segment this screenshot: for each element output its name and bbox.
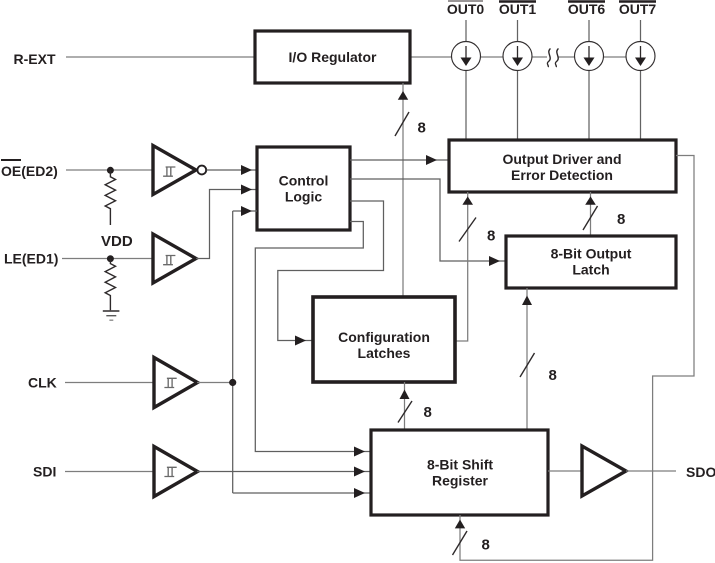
arrow into I/O Regulator bottom	[398, 91, 408, 100]
arrow into Control Logic input 2	[241, 185, 252, 195]
arrow into Shift Register input 2	[354, 467, 365, 477]
Control Logic box	[257, 147, 350, 230]
Output Driver and Error Detection box	[449, 140, 676, 192]
current source OUT1	[503, 42, 532, 71]
arrow into Shift Register input 3	[354, 488, 365, 498]
node CLK junction dot	[229, 379, 236, 386]
svg-text:8-Bit Output: 8-Bit Output	[551, 246, 632, 262]
wire LE buffer to Control Logic input 2	[196, 190, 257, 259]
wire CLK to Control Logic input 3	[233, 210, 257, 212]
OE(ED2) port label with overline	[1, 160, 58, 179]
wire CLK to Shift Register input 3	[233, 492, 371, 494]
node LE junction dot	[107, 255, 114, 262]
ground symbol	[103, 311, 120, 320]
svg-text:CLK: CLK	[28, 375, 57, 391]
wire SDI buffer to Shift Register input 2	[197, 471, 371, 473]
wire CLK buffer to junction	[197, 382, 233, 384]
break squiggle between OUT1 and OUT6	[547, 49, 558, 68]
svg-text:Control: Control	[279, 173, 329, 189]
svg-text:8: 8	[617, 211, 625, 228]
arrow into Output Driver bottom left	[462, 196, 473, 204]
resistor OE pull-up to VDD	[105, 170, 115, 225]
bus slash (ShiftReg to Config)	[398, 401, 412, 423]
Configuration Latches box	[313, 297, 455, 382]
svg-text:Configuration: Configuration	[338, 329, 430, 345]
resistor LE pull-down to ground	[105, 259, 115, 311]
wire OUT7 stem	[640, 20, 642, 140]
svg-text:8: 8	[549, 367, 557, 384]
8-Bit Output Latch box	[506, 236, 676, 288]
wire Shift Register to SDO buffer	[548, 470, 582, 472]
wire CLK net vertical	[232, 211, 234, 493]
wire error status feedback from Output Driver to Shift Register	[460, 156, 694, 561]
svg-text:OE(ED2): OE(ED2)	[1, 163, 58, 179]
net OUT1 label	[499, 1, 537, 17]
wire OUT1 stem	[517, 20, 519, 140]
wire OUT0 stem	[465, 20, 467, 140]
bus Shift Register to 8-Bit Output Latch	[526, 288, 528, 430]
svg-text:OUT1: OUT1	[499, 1, 537, 17]
svg-text:8-Bit Shift: 8-Bit Shift	[427, 457, 493, 473]
bus I/O Regulator to Configuration Latches vertical	[402, 83, 404, 297]
bus slash near I/O Regulator	[395, 112, 409, 136]
svg-text:SDI: SDI	[33, 464, 56, 480]
arrow into 8-Bit Output Latch bottom	[522, 296, 532, 306]
arrow into Configuration Latches left	[295, 336, 306, 346]
arrow into Shift Register bottom	[455, 520, 465, 529]
arrow into Shift Register input 1	[354, 447, 365, 457]
arrow into Configuration Latches bottom	[400, 390, 410, 400]
node OE junction dot	[107, 167, 114, 174]
current source OUT6	[575, 42, 604, 71]
net OUT7 label	[619, 1, 657, 17]
wire between current sources after break	[559, 56, 641, 58]
8-Bit Shift Register box	[371, 430, 548, 515]
bus Configuration Latches to Output Driver	[455, 192, 468, 341]
arrow into Control Logic input 3	[241, 206, 252, 216]
svg-text:I/O Regulator: I/O Regulator	[289, 49, 377, 65]
current source OUT7	[626, 42, 655, 71]
wire Control Logic output 1 to Output Driver	[350, 159, 449, 161]
arrow into Output Driver left	[426, 155, 437, 165]
svg-text:LE(ED1): LE(ED1)	[4, 251, 58, 267]
schmitt buffer CLK	[154, 358, 198, 408]
wire LE(ED1) to buffer	[62, 258, 152, 260]
schmitt buffer OE	[153, 146, 196, 195]
wire CLK to buffer	[65, 382, 154, 384]
svg-text:8: 8	[487, 228, 495, 245]
wire SDI to buffer	[65, 471, 154, 473]
wire OE(ED2) to buffer	[66, 169, 152, 171]
wire Control Logic output 4 to 8-Bit Shift Register	[255, 222, 371, 452]
I/O Regulator box	[255, 31, 410, 83]
net OUT6 label	[568, 1, 606, 17]
arrow into Control Logic input 1	[241, 165, 252, 175]
svg-text:8: 8	[424, 404, 432, 421]
buffer SDO output	[582, 446, 626, 496]
schmitt buffer SDI	[154, 447, 198, 497]
svg-text:OUT6: OUT6	[568, 1, 606, 17]
wire Control Logic output 2 to 8-Bit Output Latch	[350, 179, 506, 261]
svg-text:Latches: Latches	[358, 345, 411, 361]
svg-text:OUT0: OUT0	[447, 1, 485, 17]
svg-text:Output Driver and: Output Driver and	[502, 151, 621, 167]
wire I/O Regulator to current sources	[410, 56, 547, 58]
svg-text:8: 8	[482, 537, 490, 554]
arrow into 8-Bit Output Latch left	[489, 256, 500, 266]
wire OE buffer to Control Logic	[207, 169, 258, 171]
current source OUT0	[452, 42, 481, 71]
svg-text:OUT7: OUT7	[619, 1, 657, 17]
wire Control Logic output 3 to Configuration Latches	[278, 201, 384, 341]
wire OUT6 stem	[588, 20, 590, 140]
schmitt buffer LE	[153, 234, 196, 283]
net OUT0 label	[447, 1, 485, 17]
bus slash (feedback to ShiftReg)	[453, 531, 468, 555]
wire SDO buffer to SDO port	[626, 470, 676, 472]
inverter bubble on OE buffer output	[197, 166, 206, 175]
wire R-EXT to I/O Regulator	[66, 56, 255, 58]
svg-text:8: 8	[418, 120, 426, 137]
svg-text:Error Detection: Error Detection	[511, 167, 613, 183]
svg-text:SDO: SDO	[686, 464, 715, 480]
bus slash (Config to Driver)	[459, 218, 476, 242]
svg-text:R-EXT: R-EXT	[14, 51, 56, 67]
svg-text:VDD: VDD	[101, 233, 133, 250]
svg-text:Logic: Logic	[285, 189, 323, 205]
svg-text:Latch: Latch	[572, 262, 609, 278]
bus Shift Register to Configuration Latches	[404, 382, 406, 430]
svg-text:Register: Register	[432, 473, 489, 489]
bus slash (Latch to Driver)	[583, 206, 598, 230]
arrow into Output Driver bottom right	[585, 196, 596, 204]
bus slash (ShiftReg to Latch)	[520, 353, 535, 377]
bus 8-Bit Output Latch to Output Driver	[590, 192, 592, 236]
